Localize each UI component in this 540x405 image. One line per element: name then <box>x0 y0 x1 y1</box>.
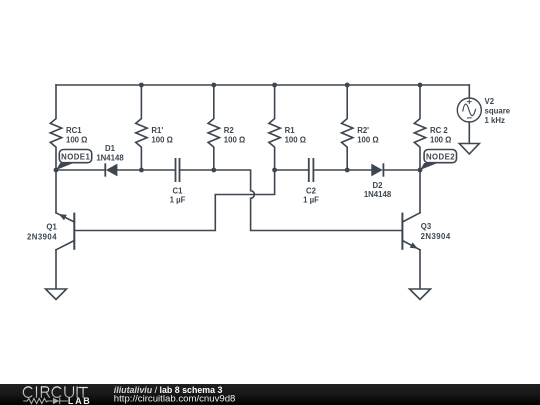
junction dot NODE1 <box>54 168 59 173</box>
diode D2 <box>364 163 392 199</box>
resistor R2 <box>208 85 245 170</box>
junction dot rail R1 <box>272 83 277 88</box>
svg-text:100 Ω: 100 Ω <box>66 136 87 145</box>
wire C2 to Q1 base (cross wire) <box>75 170 275 231</box>
svg-text:http://circuitlab.com/cnuv9d8: http://circuitlab.com/cnuv9d8 <box>114 394 236 405</box>
svg-text:C2: C2 <box>306 186 317 195</box>
resistor R1 <box>269 85 306 170</box>
footer bar <box>0 384 540 405</box>
junction dot rail R1' <box>139 83 144 88</box>
ground (V2) <box>459 144 479 155</box>
wire Q1 collector to ground <box>55 250 57 289</box>
svg-text:R1: R1 <box>285 126 296 135</box>
junction dot rail R2 <box>211 83 216 88</box>
wire Q1 emitter to NODE1 <box>55 170 57 213</box>
node NODE2 label <box>420 150 457 171</box>
svg-text:R2: R2 <box>224 126 235 135</box>
svg-text:2N3904: 2N3904 <box>421 232 451 241</box>
svg-text:Q1: Q1 <box>46 222 57 231</box>
capacitor C2 <box>303 158 319 205</box>
svg-text:100 Ω: 100 Ω <box>285 136 306 145</box>
wire C2 to D2 <box>313 169 371 171</box>
junction dot R1 bottom <box>272 168 277 173</box>
resistor RC1 <box>50 85 87 170</box>
svg-text:RC1: RC1 <box>66 126 82 135</box>
wire R1 to C2 <box>275 169 309 171</box>
ground (Q1) <box>46 289 67 300</box>
junction dot rail R2' <box>345 83 350 88</box>
svg-text:1 µF: 1 µF <box>303 196 319 205</box>
junction dot R2 bottom <box>211 168 216 173</box>
node NODE1 label <box>56 150 92 171</box>
svg-text:100 Ω: 100 Ω <box>151 136 172 145</box>
logo CIRCUIT text <box>23 387 87 398</box>
svg-text:V2: V2 <box>485 97 495 106</box>
wire C1 to Q3 base (cross wire with hop) <box>180 170 403 231</box>
wire D2 to NODE2 <box>383 169 420 171</box>
resistor RC2 <box>414 85 451 170</box>
wire D1 to C1 <box>117 169 175 171</box>
junction dot rail RC2 <box>418 83 423 88</box>
capacitor C1 <box>170 158 186 205</box>
diode D1 <box>96 144 124 177</box>
svg-text:Q3: Q3 <box>421 222 432 231</box>
junction dot NODE2 <box>418 168 423 173</box>
wire NODE2 to Q3 collector <box>419 170 421 213</box>
ground (Q3) <box>410 289 431 300</box>
svg-text:NODE1: NODE1 <box>61 153 90 162</box>
logo resistor symbol <box>23 398 52 403</box>
transistor Q1 <box>27 213 74 250</box>
svg-text:1 kHz: 1 kHz <box>485 116 505 125</box>
wire NODE1 to D1 <box>56 169 105 171</box>
svg-text:1N4148: 1N4148 <box>96 153 124 162</box>
svg-text:100 Ω: 100 Ω <box>357 136 378 145</box>
svg-text:R1': R1' <box>151 126 163 135</box>
svg-text:LAB: LAB <box>68 396 92 405</box>
logo diode symbol <box>53 398 60 404</box>
svg-text:D1: D1 <box>105 144 116 153</box>
wire top rail <box>56 84 469 86</box>
svg-text:RC 2: RC 2 <box>430 126 448 135</box>
svg-text:NODE2: NODE2 <box>426 153 455 162</box>
voltage source V2 <box>457 85 510 144</box>
transistor Q3 <box>402 213 450 250</box>
junction dot R2' bottom <box>345 168 350 173</box>
wire Q3 emitter to ground <box>419 250 421 289</box>
svg-text:R2': R2' <box>357 126 369 135</box>
junction dot R1' bottom <box>139 168 144 173</box>
svg-text:100 Ω: 100 Ω <box>430 136 451 145</box>
resistor R1' <box>136 85 173 170</box>
resistor R2' <box>342 85 379 170</box>
svg-text:1N4148: 1N4148 <box>364 190 392 199</box>
svg-text:1 µF: 1 µF <box>170 196 186 205</box>
svg-text:D2: D2 <box>373 181 384 190</box>
svg-text:square: square <box>485 107 511 116</box>
svg-text:100 Ω: 100 Ω <box>224 136 245 145</box>
svg-text:C1: C1 <box>173 186 184 195</box>
svg-text:2N3904: 2N3904 <box>27 232 57 241</box>
